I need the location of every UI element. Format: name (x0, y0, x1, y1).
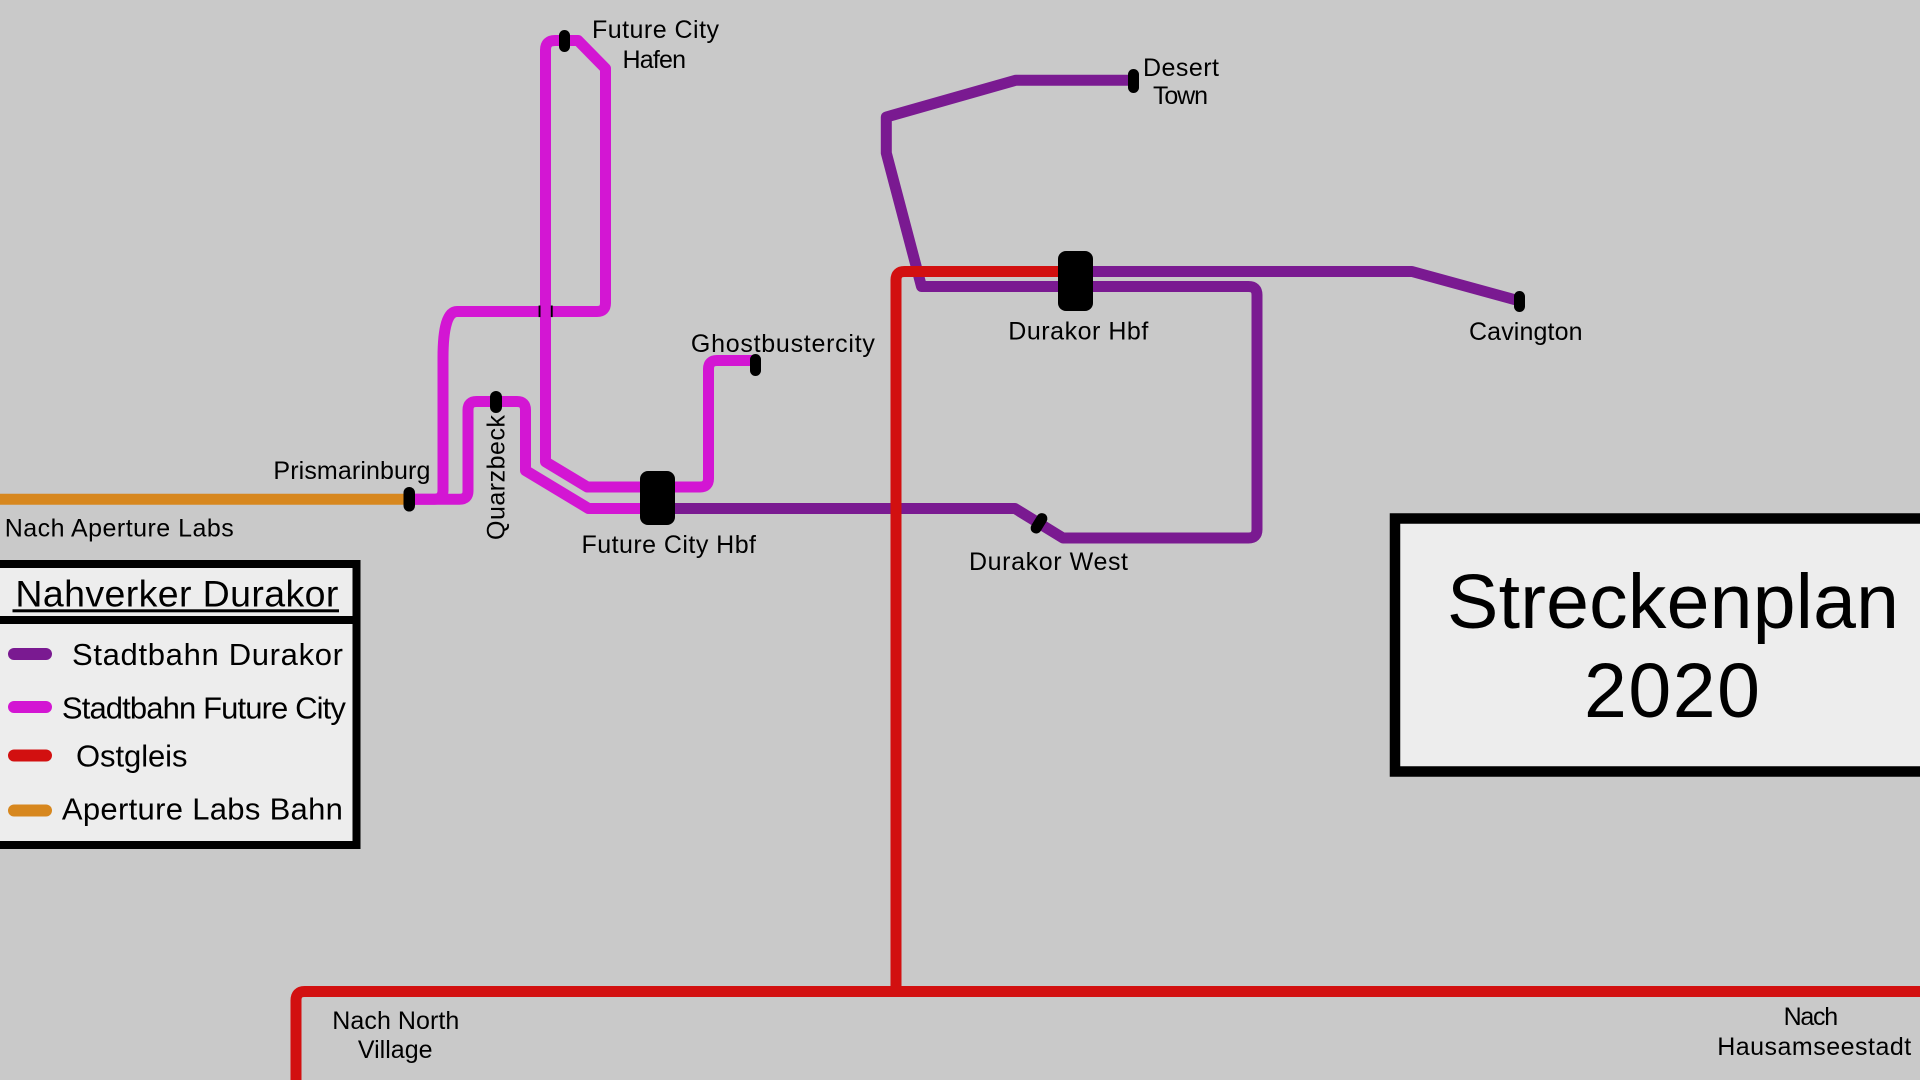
station Quarzbeck (490, 391, 502, 413)
svg-text:Ghostbustercity: Ghostbustercity (691, 330, 876, 358)
svg-text:Hausamseestadt: Hausamseestadt (1717, 1033, 1911, 1061)
svg-text:Streckenplan: Streckenplan (1447, 559, 1899, 645)
svg-text:Prismarinburg: Prismarinburg (273, 457, 430, 485)
svg-text:Town: Town (1153, 82, 1208, 110)
svg-text:Village: Village (358, 1036, 433, 1064)
legend box (0, 564, 357, 845)
svg-text:Nach North: Nach North (332, 1007, 459, 1035)
svg-text:Desert: Desert (1143, 54, 1219, 82)
wire: Aperture Labs Bahn orange line to Prismarinburg (0, 494, 409, 505)
station Desert Town (1128, 69, 1139, 93)
station Future City Hafen (559, 30, 570, 52)
station Durakor West (1029, 511, 1050, 536)
svg-text:Future City: Future City (592, 16, 720, 44)
svg-text:2020: 2020 (1584, 648, 1760, 734)
station Ghostbustercity (750, 354, 761, 376)
station Durakor Hbf (1058, 251, 1093, 311)
wire: Stadtbahn Future City Hafen loop and Ghostbustercity branch (409, 41, 752, 500)
wire: Ostgleis red vertical to Durakor Hbf (896, 272, 1062, 991)
title box Streckenplan 2020 (1395, 519, 1920, 772)
svg-text:Stadtbahn Durakor: Stadtbahn Durakor (72, 637, 343, 672)
svg-text:Future City Hbf: Future City Hbf (582, 531, 757, 559)
svg-text:Quarzbeck: Quarzbeck (483, 415, 511, 541)
legend dash Ostgleis (8, 750, 52, 762)
svg-text:Ostgleis: Ostgleis (76, 739, 188, 774)
station Cavington (1514, 291, 1525, 312)
svg-text:Nach: Nach (1784, 1003, 1839, 1031)
svg-text:Cavington: Cavington (1469, 318, 1583, 346)
wire: Stadtbahn Future City Quarzbeck loop Prismarinburg - Quarzbeck - Future City Hbf (409, 402, 660, 509)
legend divider (0, 616, 357, 624)
crossing tick left (539, 306, 541, 318)
legend title underline (13, 609, 340, 612)
station Prismarinburg (404, 487, 416, 512)
legend dash Aperture Labs Bahn (8, 805, 52, 817)
svg-text:Hafen: Hafen (623, 46, 687, 74)
legend dash Stadtbahn Future City (8, 701, 52, 713)
svg-text:Stadtbahn Future City: Stadtbahn Future City (62, 691, 347, 726)
wire: Stadtbahn Durakor main line Desert Town - loop - Durakor West - Future City Hbf (656, 80, 1257, 538)
crossing tick right (551, 306, 553, 318)
wire: Ostgleis red bottom line Nach North Village - Nach Hausamseestadt (296, 992, 1920, 1080)
svg-text:Nach Aperture Labs: Nach Aperture Labs (5, 515, 234, 543)
legend dash Stadtbahn Durakor (8, 648, 52, 660)
svg-text:Durakor Hbf: Durakor Hbf (1008, 318, 1148, 346)
svg-text:Durakor West: Durakor West (969, 548, 1128, 576)
station Future City Hbf (640, 471, 675, 525)
svg-text:Nahverker Durakor: Nahverker Durakor (15, 573, 338, 615)
svg-text:Aperture Labs Bahn: Aperture Labs Bahn (62, 792, 343, 827)
wire: Stadtbahn Durakor branch Durakor Hbf - Cavington (1060, 272, 1516, 301)
